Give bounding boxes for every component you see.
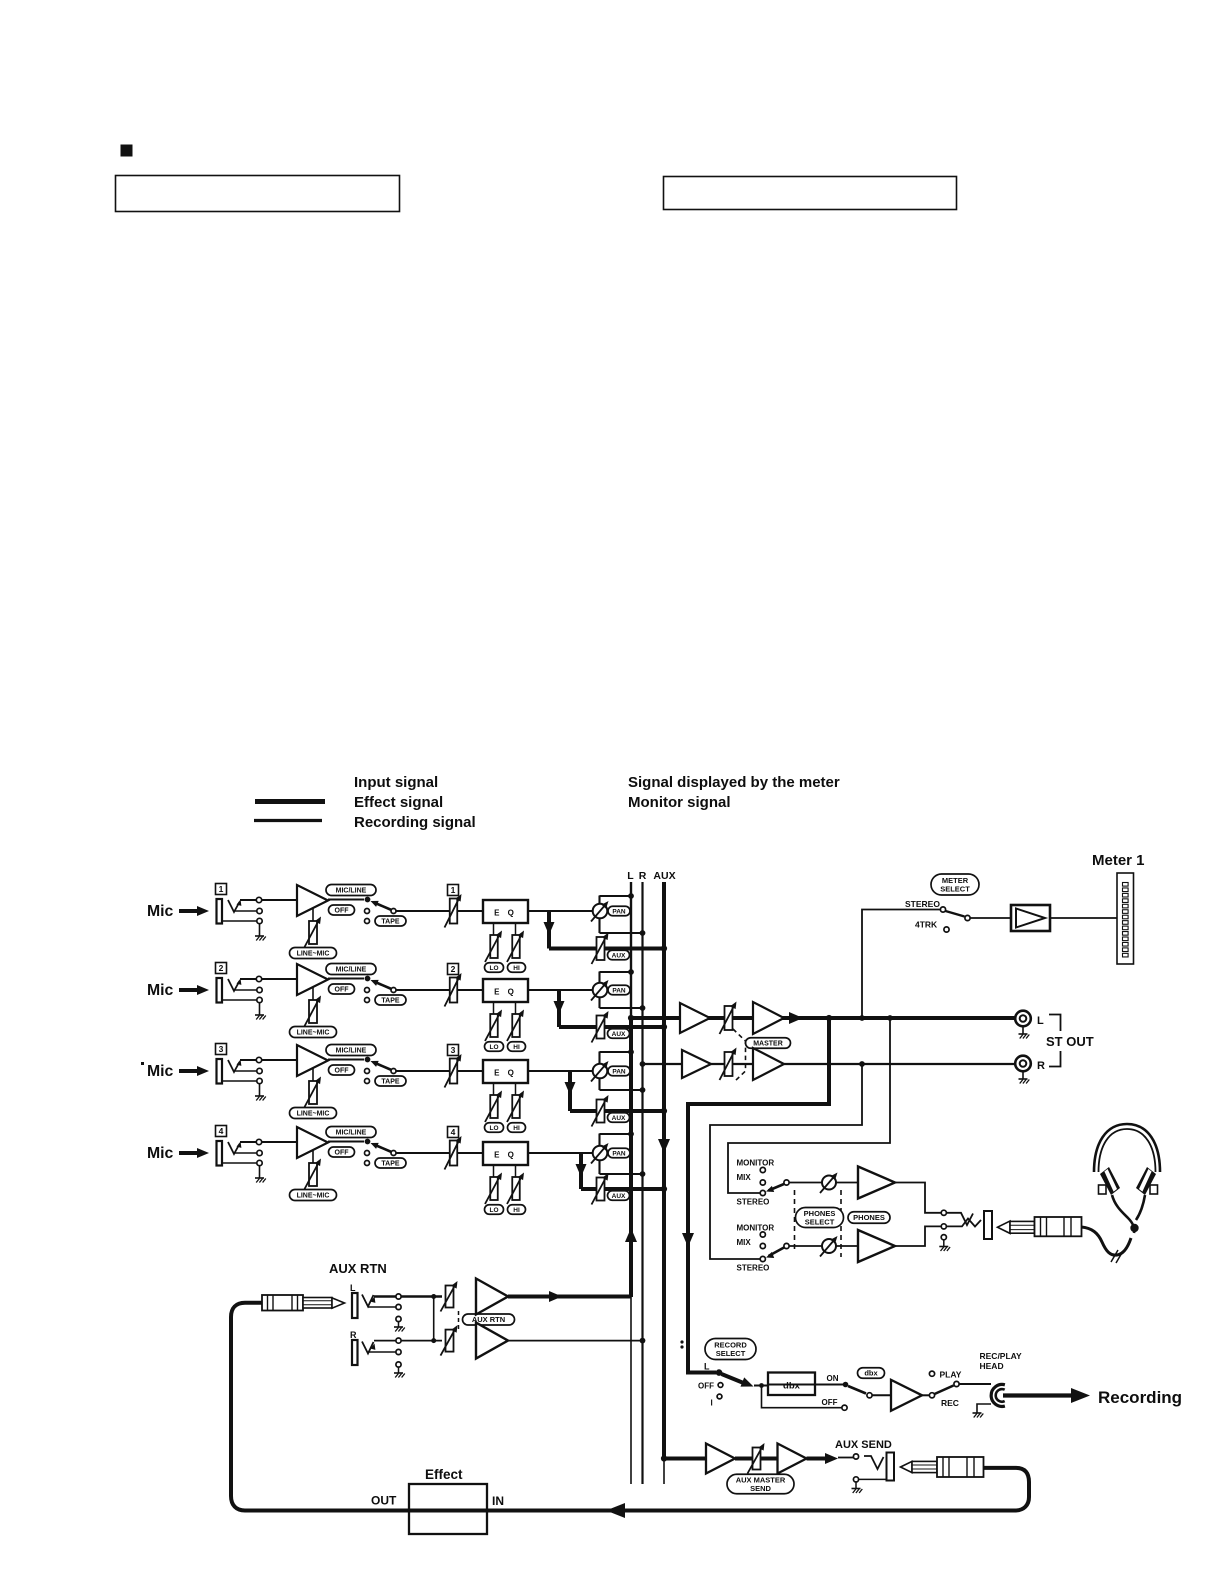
contact ch1 jack b [257,908,262,913]
svg-text:LINE~MIC: LINE~MIC [297,1030,330,1037]
oval label LO ch1 [485,963,504,973]
svg-text:LINE~MIC: LINE~MIC [297,1111,330,1118]
oval label AUX ch4 [608,1191,630,1201]
contact phones jack tip [941,1210,946,1215]
svg-text:4: 4 [451,1127,456,1137]
node ch1 on AUX bus [661,945,667,951]
dbx box [768,1373,815,1396]
wire ch4 pan to R bus [600,1173,643,1175]
wire ch2 jack to amp [240,978,297,980]
svg-text:HI: HI [513,965,520,972]
op-amp ch4 input [297,1127,328,1158]
wire lever to dbx [754,1385,768,1387]
aux send pot ch3 [592,1095,609,1127]
phones jack tip spring [946,1213,973,1225]
wire ch1 amp to switch [328,898,364,900]
wire ch2 aux branch down [557,990,561,1027]
contact ch1 OFF [365,909,370,914]
mic input arrow ch3 [179,1069,201,1073]
rec/play head symbol [991,1384,1005,1406]
wire ch3 aux feed [570,1109,664,1113]
EQ box ch2 [483,979,528,1002]
bus AUX down arrow [658,1139,670,1153]
wire aux send sleeve [859,1478,886,1480]
op-amp phones upper [858,1167,895,1199]
EQ box ch1 [483,900,528,923]
EQ LO pot ch4 [485,1173,502,1205]
wire ch3 amp to switch [328,1058,364,1060]
node ch1 on L bus [628,893,634,899]
wire aux send b [761,1457,778,1461]
svg-text:TAPE: TAPE [381,1079,399,1086]
wire meter tap from L [862,910,940,1019]
oval label OFF ch1 [329,905,355,915]
oval label OFF ch2 [329,984,355,994]
jack ST OUT R [1015,1056,1031,1072]
wire ch4 pan loop left [598,1134,600,1146]
headphone cable break marks [1111,1250,1118,1262]
contact ch3 jack b [257,1068,262,1073]
svg-text:OFF: OFF [335,1068,350,1075]
wire ch2 EQ to pan [528,989,593,991]
arrow L master [789,1012,803,1024]
bracket ST OUT [1049,1015,1061,1032]
op-amp master R post [753,1048,784,1080]
oval label METER SELECT [931,874,979,895]
contact phones up stereo [760,1190,765,1195]
jack aux send tip spring [864,1456,884,1469]
node meter tap [859,1015,865,1021]
aux master send pot [748,1443,765,1474]
svg-text:TAPE: TAPE [381,998,399,1005]
svg-text:AUX: AUX [612,952,626,959]
wire through dbx box [768,1384,815,1386]
oval label HI ch1 [508,963,526,973]
legend line recording signal [254,819,322,822]
ground head [977,1404,991,1413]
fader number box 4 [448,1127,459,1138]
contact meter common [965,915,970,920]
svg-text:LO: LO [489,965,498,972]
wire ch4 EQ to pan [528,1152,593,1154]
switch lever ch2 input select [374,982,392,990]
op-amp aux send post [778,1444,807,1474]
jack aux send bar [887,1453,895,1481]
ground ch3 input jack [255,1096,266,1101]
trim pot ch3 [304,1077,321,1109]
headphones cable yoke [1112,1195,1134,1233]
wire aux send line [664,1457,706,1461]
empty caption box left [116,176,400,212]
oval label MASTER [746,1038,791,1049]
svg-text:IN: IN [492,1494,504,1508]
node record select L contact [716,1369,723,1376]
aux send plug tip [901,1461,913,1472]
contact meter 4TRK [944,927,949,932]
input jack J3 tip contact [228,1060,240,1072]
op-amp aux rtn L [476,1279,508,1315]
wire arrow to contact [838,1457,853,1459]
svg-text:LINE~MIC: LINE~MIC [297,1193,330,1200]
wire ch2 pan loop left [598,972,600,983]
node ch3 on L bus [628,1049,634,1055]
oval label OFF ch4 [329,1147,355,1157]
empty caption box right [664,177,957,210]
wire dbx bypass [762,1386,842,1408]
wire ch3 pan to R bus [600,1089,643,1091]
svg-text:E Q: E Q [494,1069,517,1078]
wire ch2 jack ring [234,989,257,991]
oval label LINE~MIC ch1 [290,948,337,959]
wire phones low pot to amp [836,1245,858,1247]
wire ch1 EQ to HI pot [515,923,517,935]
node L bus to master [628,1015,634,1021]
svg-text:L: L [627,870,634,882]
contact phones low mix a [760,1232,765,1237]
node aux rtn R on bus [640,1338,646,1344]
node contact dbx ON [843,1382,849,1388]
phones volume pot lower [820,1236,838,1257]
trim pot ch2 [304,996,321,1028]
EQ LO pot ch1 [485,931,502,963]
wire ch4 sleeve to ground [259,1166,261,1178]
contact ch4 OFF [365,1151,370,1156]
wire ch4 pan to L bus [600,1133,632,1135]
wire ch4 EQ to LO pot [493,1165,495,1177]
svg-text:OFF: OFF [822,1398,838,1407]
wire ch4 jack sleeve [222,1162,257,1164]
svg-text:Monitor signal: Monitor signal [628,794,731,811]
node aux bus corner [661,1455,667,1461]
wire ch4 aux branch down [579,1153,583,1189]
ground aux send [855,1482,857,1489]
wire phones up amp to jack [895,1183,941,1213]
jack ST OUT L [1015,1011,1031,1027]
svg-text:AUX: AUX [612,1031,626,1038]
legend line effect signal [255,799,325,804]
wire ch4 jack to amp [240,1141,297,1143]
ground ST OUT L [1022,1027,1024,1035]
svg-text:L: L [350,1283,356,1293]
contact aux rtn R b [396,1349,401,1354]
mic input arrow ch4 [179,1151,201,1155]
wire phones up to pot [789,1182,822,1184]
oval label TAPE ch4 [375,1158,406,1168]
ground aux rtn R [398,1367,400,1373]
wire R master line [643,1063,1016,1065]
input jack J3 sleeve bar [217,1059,223,1084]
oval label AUX RTN [463,1314,515,1325]
svg-text:2: 2 [451,964,456,974]
wire ch3 sleeve to ground [259,1084,261,1096]
svg-text:4TRK: 4TRK [915,920,938,930]
svg-text:MIC/LINE: MIC/LINE [336,967,367,974]
wire ch3 EQ to pan [528,1070,593,1072]
oval label PAN ch2 [608,985,630,995]
wire ch1 amp to trim pot [312,908,314,921]
input jack J2 tip contact [228,979,240,991]
wire phones low to pot [789,1245,822,1247]
headphone plug tip [998,1221,1011,1233]
mic input arrow ch2 [179,988,201,992]
wire ch4 switch to fader [396,1152,483,1154]
node ch1 MIC/LINE contact [365,897,371,903]
svg-text:HI: HI [513,1207,520,1214]
contact ch2 jack c [257,997,262,1002]
svg-text:OUT: OUT [371,1494,397,1508]
contact play [929,1371,934,1376]
contact ch4 jack b [257,1150,262,1155]
bus L up arrow [625,1228,637,1242]
dashed gang phones select right [840,1190,842,1257]
contact aux rtn L b [396,1304,401,1309]
oval label RECORD SELECT [705,1339,756,1360]
svg-text:dbx: dbx [783,1381,801,1392]
svg-text:SEND: SEND [750,1484,771,1493]
svg-text:PLAY: PLAY [940,1370,962,1380]
contact phones low stereo [760,1256,765,1261]
svg-text:3: 3 [451,1045,456,1055]
svg-text:LO: LO [489,1125,498,1132]
svg-text:OFF: OFF [698,1382,714,1391]
svg-text:OFF: OFF [335,987,350,994]
ground aux rtn L [398,1322,400,1327]
oval label TAPE ch1 [375,916,406,926]
svg-text:L: L [704,1362,710,1372]
svg-text:MIX: MIX [737,1173,752,1182]
op-amp master L post [753,1002,784,1034]
node dbx bypass branch [759,1383,764,1388]
phones jack ring spring [946,1219,981,1227]
svg-text:REC/PLAY: REC/PLAY [980,1351,1023,1361]
fader pot ch4 [445,1136,462,1170]
EQ box ch4 [483,1142,528,1165]
contact aux rtn L c [396,1316,401,1321]
svg-text:R: R [639,870,647,882]
headphone plug body [1035,1217,1082,1236]
aux rtn plug tip [332,1298,345,1308]
op-amp aux send pre [706,1444,735,1474]
contact phones jack sleeve [941,1235,946,1240]
node L line phones branch [887,1015,893,1021]
node ch1 on R bus [640,930,646,936]
EQ HI pot ch2 [507,1010,524,1042]
svg-text:Effect: Effect [425,1467,463,1482]
svg-text:AUX: AUX [612,1115,626,1122]
svg-text:SELECT: SELECT [940,885,970,894]
wire ch4 amp to trim pot [312,1150,314,1163]
node L line record branch [826,1015,832,1021]
contact ch1 jack c [257,918,262,923]
op-amp phones lower [858,1230,895,1262]
wire recording out [1003,1393,1071,1397]
wire ch4 aux feed [581,1187,664,1191]
headphones right cup [1136,1167,1156,1195]
switch lever phones lower [769,1248,785,1257]
wire ch3 aux branch down [568,1071,572,1111]
pan pot ch2 [591,980,609,1001]
aux rtn pot L [441,1281,458,1312]
wire ch2 jack sleeve [222,999,257,1001]
svg-text:OFF: OFF [335,1150,350,1157]
oval label TAPE ch3 [375,1076,406,1086]
wire ch1 EQ to LO pot [493,923,495,935]
contact record select off [718,1383,723,1388]
svg-text:LINE~MIC: LINE~MIC [297,951,330,958]
svg-text:Signal displayed by the meter: Signal displayed by the meter [628,774,840,791]
dashed gang aux rtn pots [458,1311,460,1330]
switch lever record select [722,1374,747,1384]
wire ch2 aux feed [559,1025,664,1029]
svg-text:LO: LO [489,1207,498,1214]
wire aux send a [735,1457,752,1461]
op-amp record [891,1380,922,1411]
contact dbx OFF [842,1405,847,1410]
svg-text:SELECT: SELECT [716,1349,746,1358]
oval label HI ch4 [508,1205,526,1215]
contact aux send sleeve [853,1477,858,1482]
node ch2 MIC/LINE contact [365,976,371,982]
wire ch2 amp to switch [328,977,364,979]
contact ch3 switch common [391,1069,396,1074]
svg-text:Mic: Mic [147,982,174,999]
bus AUX thin stub [663,1459,665,1484]
wire ch2 EQ to LO pot [493,1002,495,1014]
jack number box J2 [216,963,227,974]
op-amp master R pre [682,1050,711,1078]
oval label AUX MASTER SEND [727,1474,794,1494]
contact ch2 TAPE [365,998,370,1003]
svg-text:MIC/LINE: MIC/LINE [336,1048,367,1055]
headphone plug shaft [1010,1221,1035,1233]
input jack J2 sleeve bar [217,978,223,1003]
svg-text:AUX: AUX [612,1193,626,1200]
svg-text:STEREO: STEREO [737,1198,770,1207]
contact rec [929,1393,934,1398]
fader pot ch1 [445,894,462,928]
svg-text:Recording signal: Recording signal [354,814,476,831]
wire ch1 aux branch down [547,911,551,949]
svg-text:STEREO: STEREO [737,1264,770,1273]
svg-text:Mic: Mic [147,1063,174,1080]
svg-text:E Q: E Q [494,909,517,918]
fader pot ch2 [445,973,462,1007]
wire ch1 jack ring [234,910,257,912]
node ch3 on R bus [640,1087,646,1093]
aux send pot ch2 [592,1011,609,1043]
ground ch4 input jack [255,1178,266,1183]
svg-text:Mic: Mic [147,1145,174,1162]
wire ch1 jack to amp [240,899,297,901]
svg-text:AUX SEND: AUX SEND [835,1439,892,1451]
node aux rtn link bottom [431,1338,436,1343]
dashed gang phones select left [794,1190,796,1252]
node ch4 on AUX bus [661,1186,667,1192]
bus L upper segment [630,882,632,1018]
svg-text:4: 4 [219,1126,224,1136]
wire ch3 pan to L bus [600,1051,632,1053]
wire phones low amp to jack [895,1226,941,1246]
fader number box 1 [448,885,459,896]
svg-text:E Q: E Q [494,1151,517,1160]
svg-text:1: 1 [451,885,456,895]
svg-text:2: 2 [219,963,224,973]
svg-text:MONITOR: MONITOR [737,1159,775,1168]
oval label HI ch2 [508,1042,526,1052]
switch lever ch1 input select [374,903,392,911]
oval label AUX ch1 [608,950,630,960]
svg-text:E Q: E Q [494,988,517,997]
svg-text:STEREO: STEREO [905,899,940,909]
wire ch1 EQ to pan [528,910,593,912]
wire aux rtn R b stub [368,1351,396,1353]
phones volume pot upper [820,1173,838,1194]
wire ch1 sleeve to ground [259,924,261,936]
svg-text:ON: ON [827,1374,839,1383]
aux send pot ch1 [592,933,609,965]
svg-text:ST OUT: ST OUT [1046,1034,1094,1049]
oval label LO ch2 [485,1042,504,1052]
input jack J4 tip contact [228,1142,240,1154]
fader pot ch3 [445,1054,462,1088]
svg-text:MASTER: MASTER [753,1041,783,1048]
svg-text:PHONES: PHONES [853,1213,885,1222]
svg-text:L: L [1037,1015,1044,1027]
svg-text:3: 3 [219,1044,224,1054]
jack number box J1 [216,884,227,895]
node R bus to master [640,1061,646,1067]
oval label LINE~MIC ch4 [290,1190,337,1201]
scan colon mark [680,1340,683,1343]
pan pot ch1 [591,901,609,922]
wire aux rtn L to bus [508,1295,631,1299]
svg-text:PAN: PAN [612,987,626,994]
svg-text:TAPE: TAPE [381,1161,399,1168]
contact ch1 TAPE [365,919,370,924]
wire ch3 EQ to LO pot [493,1083,495,1095]
svg-text:1: 1 [219,884,224,894]
oval label dbx [858,1368,885,1379]
svg-text:PAN: PAN [612,1150,626,1157]
wire meter switch to driver [970,917,1011,919]
op-amp master L pre [680,1003,710,1033]
node R line phones branch [859,1061,865,1067]
node ch2 on L bus [628,969,634,975]
fader number box 2 [448,964,459,975]
contact ch2 jack a [256,976,261,981]
switch lever phones upper [769,1184,785,1191]
wire ch4 EQ to HI pot [515,1165,517,1177]
wire ch4 amp to switch [328,1140,364,1142]
contact phones low common [784,1243,789,1248]
wire aux rtn R tip [374,1340,442,1342]
oval label OFF ch3 [329,1065,355,1075]
switch lever meter select [946,911,965,917]
wire ch3 EQ to HI pot [515,1083,517,1095]
svg-text:PAN: PAN [612,908,626,915]
wire phones up pot to amp [836,1182,858,1184]
contact dbx common [867,1393,872,1398]
switch lever dbx [848,1386,866,1394]
contact ch1 switch common [391,909,396,914]
wire ch1 switch to fader [396,910,483,912]
oval label PHONES [848,1212,890,1224]
contact record select third [717,1394,722,1399]
switch lever ch4 input select [374,1145,392,1153]
wire ch2 EQ to HI pot [515,1002,517,1014]
aux send pot ch4 [592,1173,609,1205]
oval label MIC/LINE ch4 [326,1127,376,1138]
